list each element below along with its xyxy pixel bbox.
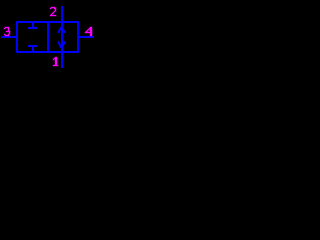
wire port3 lead left (1, 36, 16, 38)
port number 4 (85, 27, 92, 36)
current arrow head down (58, 42, 65, 48)
top voltage-sense electrode stub (32, 23, 34, 27)
divider between control half and source half (47, 21, 49, 53)
port number 3 (4, 27, 10, 36)
top voltage-sense electrode plate (28, 27, 37, 29)
wire port4 lead right (79, 36, 94, 38)
port number 2 (50, 7, 56, 16)
port number 1 (53, 57, 58, 66)
wire port2 to port1 vertical through source half (61, 6, 63, 68)
bottom voltage-sense electrode plate (28, 45, 37, 47)
background (0, 0, 98, 73)
component body box outline U1 (16, 21, 79, 53)
bottom voltage-sense electrode stub (32, 47, 34, 51)
current arrow head up (58, 27, 65, 33)
